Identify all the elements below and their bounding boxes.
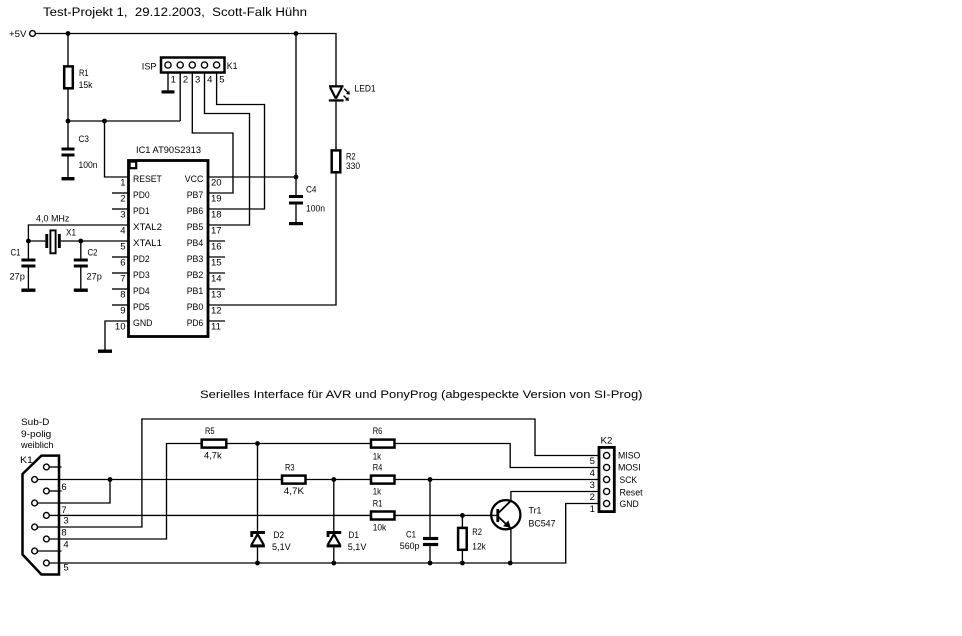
svg-text:100n: 100n	[79, 160, 98, 171]
svg-text:4: 4	[120, 226, 125, 237]
svg-text:16: 16	[211, 242, 222, 253]
pin 4 circle	[201, 62, 207, 68]
wire VCC pin20	[208, 176, 296, 178]
svg-text:PB4: PB4	[187, 238, 204, 249]
wire R1 to transistor base	[395, 514, 497, 516]
svg-text:1: 1	[171, 74, 176, 85]
wire ISP pin4 to PB5	[205, 73, 250, 226]
svg-text:8: 8	[120, 290, 125, 301]
svg-text:R2: R2	[472, 527, 482, 538]
svg-text:5: 5	[63, 563, 68, 574]
wire R6 to K2 MOSI	[395, 444, 600, 468]
svg-text:D2: D2	[274, 530, 285, 541]
node R2 top junction	[460, 513, 465, 518]
wire XTAL2 pin4	[28, 225, 128, 241]
svg-text:4: 4	[590, 468, 595, 479]
pin 3 circle	[189, 62, 195, 68]
svg-text:12k: 12k	[472, 542, 486, 553]
node crystal right junction	[78, 239, 83, 244]
ground under C2	[80, 268, 82, 289]
svg-text:R1: R1	[79, 68, 89, 79]
svg-text:GND: GND	[620, 499, 639, 510]
wire subd pin7 up to pin6 net	[38, 480, 111, 504]
wire XTAL1 pin5	[81, 240, 128, 242]
wire ISP pin5 to PB6	[208, 73, 265, 210]
ground under C1	[27, 268, 29, 289]
ground under C3	[67, 157, 69, 178]
svg-text:12: 12	[211, 306, 222, 317]
svg-text:XTAL2: XTAL2	[133, 222, 162, 233]
wire collector to K2 Reset	[511, 492, 599, 501]
wire GND pin10	[105, 321, 128, 350]
svg-text:PD0: PD0	[133, 190, 150, 201]
transistor Tr1 BC547	[491, 500, 520, 529]
wire subd pin6 to R3	[38, 479, 282, 481]
wire crystal right	[61, 240, 81, 242]
svg-text:D1: D1	[348, 530, 359, 541]
svg-text:R6: R6	[373, 426, 383, 437]
svg-text:15: 15	[211, 258, 222, 269]
svg-text:PB6: PB6	[187, 206, 204, 217]
wire ISP pin1 to ground	[167, 73, 169, 91]
svg-text:5: 5	[120, 242, 125, 253]
resistor R5 4,7k	[202, 440, 227, 448]
wire R3 to R4	[306, 479, 371, 481]
svg-text:SCK: SCK	[620, 475, 638, 486]
ground under C4	[295, 205, 297, 223]
svg-text:PD6: PD6	[187, 318, 204, 329]
svg-text:9: 9	[120, 306, 125, 317]
svg-text:2: 2	[590, 492, 595, 503]
svg-text:R1: R1	[373, 499, 383, 510]
svg-text:3: 3	[195, 74, 200, 85]
wire stubs unconnected subd pins	[49, 466, 61, 468]
capacitor C4	[295, 177, 297, 195]
subd pin circles	[44, 464, 50, 470]
wire emitter to gnd row	[510, 529, 512, 563]
svg-text:C1: C1	[406, 530, 416, 541]
svg-text:3: 3	[63, 516, 68, 527]
svg-text:GND: GND	[133, 318, 153, 329]
svg-text:MOSI: MOSI	[618, 463, 641, 474]
svg-text:PB7: PB7	[187, 190, 204, 201]
wire ISP pin2 to reset net	[179, 73, 181, 122]
svg-text:3: 3	[120, 210, 125, 221]
capacitor C2 27p	[80, 241, 82, 259]
wire LED to R2	[335, 102, 337, 150]
svg-text:C2: C2	[88, 248, 98, 259]
svg-text:K1: K1	[227, 61, 238, 72]
svg-text:4,7K: 4,7K	[284, 486, 305, 497]
svg-text:2: 2	[120, 194, 125, 205]
svg-text:C4: C4	[306, 185, 317, 196]
resistor R1 10k	[371, 512, 395, 520]
svg-text:Reset: Reset	[620, 487, 643, 498]
svg-text:ISP: ISP	[142, 61, 157, 72]
wire R2 to PB0 pin12	[208, 172, 336, 305]
resistor R2 12k	[461, 515, 463, 527]
svg-text:C1: C1	[11, 248, 21, 259]
svg-text:4,7k: 4,7k	[204, 451, 222, 462]
node VCC junction	[294, 175, 299, 180]
svg-text:11: 11	[211, 322, 221, 333]
svg-text:PD3: PD3	[133, 270, 150, 281]
node rail junction 2	[294, 31, 299, 36]
svg-text:10k: 10k	[373, 523, 387, 534]
svg-text:Serielles Interface für AVR un: Serielles Interface für AVR und PonyProg…	[200, 389, 643, 401]
svg-text:13: 13	[211, 290, 222, 301]
svg-text:6: 6	[61, 482, 66, 493]
svg-text:27p: 27p	[87, 272, 102, 283]
wire subd pin3 to R1	[49, 514, 370, 516]
svg-text:6: 6	[120, 258, 125, 269]
svg-text:K2: K2	[601, 435, 613, 446]
svg-text:5,1V: 5,1V	[272, 542, 291, 553]
node +5V terminal	[30, 31, 36, 37]
wire subd pin4 to R5	[49, 444, 201, 540]
svg-text:27p: 27p	[10, 272, 25, 283]
connector K2 header	[599, 447, 614, 511]
diode LED1	[329, 85, 344, 87]
capacitor C1 560p	[429, 480, 431, 537]
wire +5V to R1	[67, 34, 69, 66]
svg-text:9-polig: 9-polig	[21, 429, 51, 440]
svg-text:PD5: PD5	[133, 302, 150, 313]
svg-text:330: 330	[346, 161, 360, 172]
svg-text:3: 3	[590, 480, 595, 491]
svg-text:PB2: PB2	[187, 270, 204, 281]
pin 1 circle	[165, 62, 171, 68]
svg-text:LED1: LED1	[355, 84, 376, 95]
wire subd pin5 ground row	[49, 504, 599, 564]
svg-text:Sub-D: Sub-D	[21, 417, 50, 428]
svg-text:PB0: PB0	[187, 302, 204, 313]
pin 2 circle	[177, 62, 183, 68]
wire R1 to node	[67, 88, 69, 121]
wire ISP pin3 to PB7	[192, 73, 233, 194]
capacitor C3	[67, 121, 69, 148]
svg-text:100n: 100n	[306, 204, 325, 215]
svg-text:1: 1	[120, 178, 125, 189]
svg-text:4: 4	[63, 540, 68, 551]
svg-text:5: 5	[219, 74, 224, 85]
svg-text:R5: R5	[205, 426, 215, 437]
wire to crystal left	[28, 240, 45, 242]
svg-text:PB3: PB3	[187, 254, 204, 265]
svg-text:17: 17	[211, 226, 222, 237]
svg-text:MISO: MISO	[618, 451, 640, 462]
svg-text:+5V: +5V	[9, 29, 27, 40]
svg-text:20: 20	[211, 178, 222, 189]
svg-text:14: 14	[211, 274, 222, 285]
svg-text:PD2: PD2	[133, 254, 150, 265]
resistor R4 1k	[371, 476, 395, 484]
wire R5 to R6	[226, 443, 370, 445]
svg-text:5: 5	[590, 456, 595, 467]
resistor R6 1k	[371, 440, 395, 448]
svg-text:Test-Projekt 1, 29.12.2003,: Test-Projekt 1, 29.12.2003, Scott-Falk H…	[43, 5, 307, 19]
svg-text:X1: X1	[66, 228, 76, 239]
svg-text:1k: 1k	[373, 487, 382, 498]
wire +5V rail	[35, 34, 336, 86]
svg-text:XTAL1: XTAL1	[133, 238, 162, 249]
resistor R1	[64, 66, 73, 88]
svg-text:2: 2	[183, 74, 188, 85]
wire to RESET pin 1	[105, 121, 129, 177]
svg-text:R3: R3	[285, 463, 295, 474]
pin 5 circle	[214, 62, 220, 68]
wire reset net horizontal	[68, 120, 180, 122]
diode D1 zener 5,1V	[333, 480, 335, 532]
svg-text:PB5: PB5	[187, 222, 204, 233]
svg-text:4,0 MHz: 4,0 MHz	[36, 213, 70, 224]
IC unconnected right stubs pins 16,15,14,13,11	[208, 240, 225, 242]
svg-text:19: 19	[211, 194, 222, 205]
svg-text:5,1V: 5,1V	[348, 542, 367, 553]
svg-text:1k: 1k	[373, 452, 382, 463]
svg-text:18: 18	[211, 210, 222, 221]
svg-text:C3: C3	[79, 134, 90, 145]
node D2 top junction	[255, 441, 260, 446]
node gnd row dots	[255, 561, 260, 566]
node C1 top junction	[428, 477, 433, 482]
svg-text:7: 7	[120, 274, 125, 285]
wire subd pin8 to K2 MISO	[38, 419, 600, 527]
node pin6/pin7 junction	[108, 477, 113, 482]
svg-text:R4: R4	[373, 463, 383, 474]
svg-text:15k: 15k	[79, 80, 93, 91]
op IC1 AT90S2313 body	[129, 161, 209, 337]
resistor R3 4,7K	[282, 476, 306, 484]
svg-text:8: 8	[61, 528, 66, 539]
svg-text:BC547: BC547	[529, 519, 556, 530]
svg-text:1: 1	[590, 504, 595, 515]
svg-text:10: 10	[115, 322, 126, 333]
wire R4 to K2 SCK	[395, 479, 600, 481]
IC unconnected left stubs pins 2,3,6,7,8,9	[112, 192, 128, 194]
svg-text:7: 7	[61, 505, 66, 516]
ground ISP pin1	[162, 90, 175, 93]
svg-text:PB1: PB1	[187, 286, 204, 297]
svg-text:weiblich: weiblich	[20, 440, 53, 451]
svg-text:Tr1: Tr1	[529, 506, 542, 517]
wire rail to VCC node	[295, 34, 297, 178]
svg-text:VCC: VCC	[185, 174, 204, 185]
svg-text:4: 4	[207, 74, 212, 85]
svg-text:IC1 AT90S2313: IC1 AT90S2313	[136, 145, 201, 156]
node R1/C3/reset junction	[66, 119, 71, 124]
capacitor C1 27p	[27, 241, 29, 259]
node crystal left junction	[26, 239, 31, 244]
node rail junction 1	[66, 31, 71, 36]
node reset corner junction	[102, 119, 107, 124]
ground IC GND	[98, 350, 112, 353]
connector K1 ISP header	[161, 58, 225, 73]
svg-text:560p: 560p	[400, 541, 420, 552]
node D1 top junction	[331, 477, 336, 482]
svg-text:PD4: PD4	[133, 286, 150, 297]
svg-text:PD1: PD1	[133, 206, 150, 217]
svg-text:RESET: RESET	[133, 174, 162, 185]
diode D2 zener 5,1V	[257, 444, 259, 532]
resistor R2 330	[332, 150, 341, 172]
